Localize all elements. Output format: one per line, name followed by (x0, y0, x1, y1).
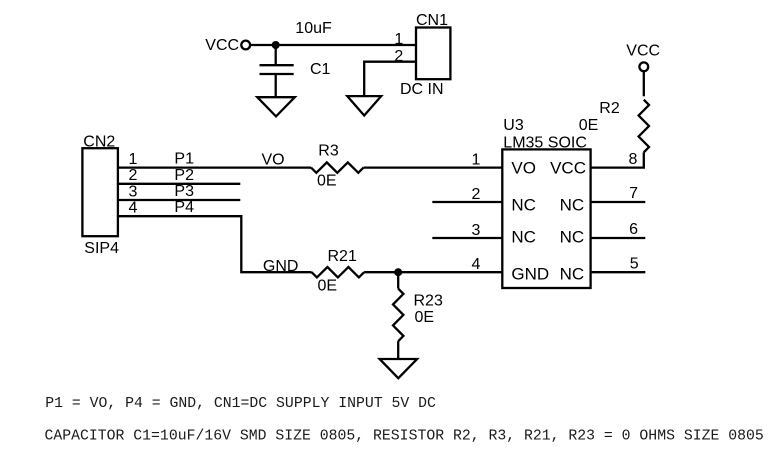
resistor R2 (639, 100, 649, 153)
wire CN2 pin2 (118, 183, 240, 185)
svg-text:NC: NC (511, 228, 536, 247)
svg-text:GND: GND (263, 258, 299, 275)
VCC terminal circle top-left (241, 41, 250, 50)
svg-text:P3: P3 (174, 183, 194, 200)
connector CN2 (82, 148, 118, 236)
svg-text:CN2: CN2 (83, 133, 115, 150)
resistor R23 (393, 289, 403, 342)
svg-text:NC: NC (560, 264, 585, 283)
svg-text:GND: GND (511, 264, 549, 283)
svg-text:7: 7 (629, 185, 638, 202)
svg-text:NC: NC (560, 195, 585, 214)
svg-text:2: 2 (394, 48, 403, 65)
wire U3 stub pin3 (432, 237, 502, 239)
svg-text:0E: 0E (317, 173, 337, 190)
svg-text:VO: VO (511, 159, 536, 178)
svg-text:DC IN: DC IN (400, 81, 444, 98)
svg-text:6: 6 (629, 221, 638, 238)
svg-text:1: 1 (471, 152, 480, 169)
node junction top (272, 41, 280, 49)
wire R2 to VCC terminal (643, 71, 645, 96)
svg-text:1: 1 (394, 31, 403, 48)
svg-text:C1: C1 (310, 61, 331, 78)
svg-text:R3: R3 (318, 142, 339, 159)
svg-text:LM35 SOIC: LM35 SOIC (503, 134, 587, 151)
resistor R21 (312, 267, 365, 277)
wire U3 pin7 (591, 201, 646, 203)
ground (CN1 pin2) (347, 96, 381, 115)
svg-text:10uF: 10uF (295, 20, 332, 37)
svg-text:VCC: VCC (550, 159, 586, 178)
svg-text:R21: R21 (328, 248, 357, 265)
wire junction to R23 (397, 272, 399, 288)
svg-text:P4: P4 (174, 199, 194, 216)
svg-text:NC: NC (511, 195, 536, 214)
wire CN2 pin3 (118, 199, 240, 201)
wire CN2 pin1 to R3 (118, 166, 311, 168)
svg-text:P1: P1 (174, 151, 194, 168)
wire R21 to U3 pin4 (364, 271, 502, 273)
svg-text:0E: 0E (579, 117, 599, 134)
capacitor C1 (275, 45, 277, 64)
svg-text:R23: R23 (414, 293, 443, 310)
svg-text:4: 4 (128, 200, 137, 217)
svg-text:U3: U3 (503, 117, 524, 134)
svg-text:2: 2 (128, 167, 137, 184)
svg-text:1: 1 (128, 151, 137, 168)
svg-text:CN1: CN1 (416, 12, 448, 29)
VCC terminal circle top-right (639, 62, 648, 71)
ground (R23) (380, 359, 418, 378)
svg-text:P1 = VO, P4 = GND, CN1=DC SUPP: P1 = VO, P4 = GND, CN1=DC SUPPLY INPUT 5… (45, 396, 436, 412)
wire U3 pin8 to R2 (591, 152, 644, 167)
svg-text:0E: 0E (415, 309, 435, 326)
wire VCC to CN1 pin1 (250, 44, 416, 46)
svg-text:4: 4 (471, 256, 480, 273)
svg-text:5: 5 (630, 255, 639, 272)
svg-text:0E: 0E (318, 278, 338, 295)
wire U3 pin6 (591, 237, 646, 239)
svg-text:CAPACITOR C1=10uF/16V SMD SIZE: CAPACITOR C1=10uF/16V SMD SIZE 0805, RES… (45, 428, 764, 444)
wire U3 pin5 (591, 271, 646, 273)
resistor R3 (311, 162, 364, 172)
svg-text:R2: R2 (599, 100, 620, 117)
connector CN1 (416, 28, 450, 80)
wire R23 to ground (397, 341, 399, 359)
ground (below C1) (257, 97, 295, 116)
svg-text:2: 2 (471, 186, 480, 203)
wire R3 to U3 pin1 (364, 166, 503, 168)
node junction GND net (394, 268, 402, 276)
svg-text:VCC: VCC (626, 42, 660, 59)
svg-text:VCC: VCC (205, 37, 239, 54)
wire CN2 pin4 to GND net (118, 216, 312, 272)
op-amp U3 body (502, 149, 590, 288)
wire U3 stub pin2 (432, 201, 502, 203)
svg-text:NC: NC (560, 228, 585, 247)
svg-text:8: 8 (628, 151, 637, 168)
svg-text:3: 3 (128, 183, 137, 200)
svg-text:VO: VO (262, 152, 285, 169)
svg-text:3: 3 (471, 222, 480, 239)
svg-text:SIP4: SIP4 (84, 240, 119, 257)
svg-text:P2: P2 (174, 167, 194, 184)
wire CN1 pin2 to ground (364, 62, 416, 96)
